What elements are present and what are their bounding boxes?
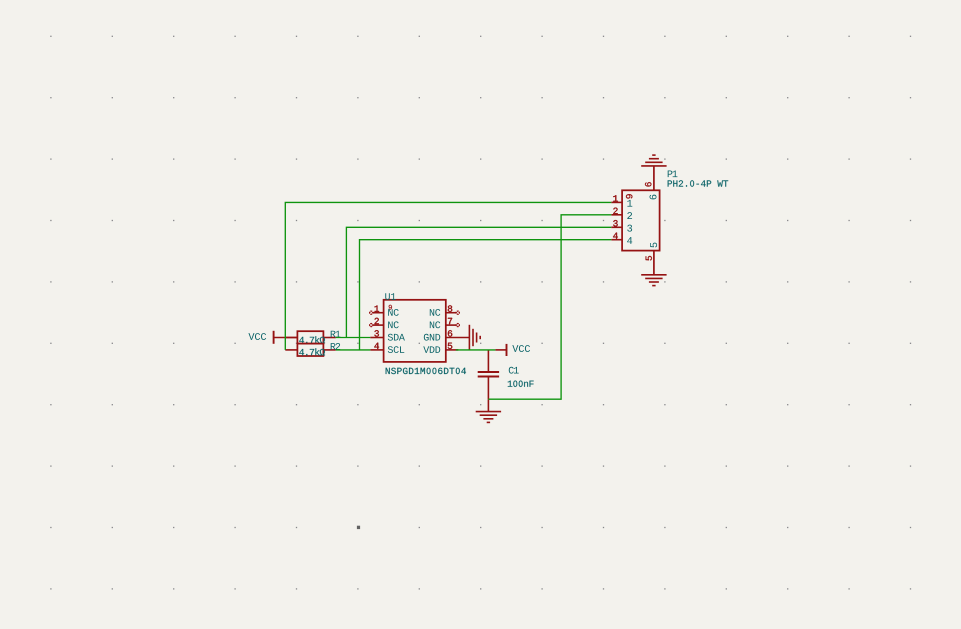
P1 stacked pin 9 number <box>626 194 632 198</box>
R1 value 4.7kOhm <box>299 336 325 343</box>
P1 pin 6 (top shield) <box>645 166 656 200</box>
ground below C1 <box>476 399 501 422</box>
P1 pin 3 <box>611 220 632 231</box>
wire SCL: R2 to U1 pin4 <box>336 349 371 351</box>
R2 value 4.7kOhm <box>299 348 325 355</box>
U1 pin 6 (GND) <box>424 330 470 340</box>
IC U1 body <box>384 300 446 362</box>
U1 pin 4 (SCL) <box>370 343 404 353</box>
P1 pin 1 <box>611 195 632 206</box>
C1 value 100nF <box>508 381 534 387</box>
resistor R1 <box>285 331 336 343</box>
wire P1 pin1 to R2/VCC rail <box>285 202 611 350</box>
U1 pin 8 (NC) <box>430 305 460 315</box>
U1 reference label <box>385 293 396 300</box>
connector P1 body <box>622 190 660 250</box>
ground at U1 pin6 <box>469 325 480 350</box>
R1 reference label <box>331 331 341 338</box>
R2 reference label <box>331 343 341 350</box>
ground above P1 (inverted) <box>641 155 666 166</box>
power symbol VCC (right) <box>495 344 506 356</box>
ground below P1 <box>641 275 666 286</box>
VCC label (left) <box>248 333 266 340</box>
P1 value PH2.0-4P WT <box>668 180 729 186</box>
wire SDA: R1 to U1 pin3 <box>336 337 371 339</box>
resistor R2 <box>285 344 336 356</box>
C1 reference label <box>509 367 519 374</box>
U1 pin 7 (NC) <box>430 318 460 328</box>
U1 pin 3 (SDA) <box>370 330 405 340</box>
wire P1 pin4 to SCL net <box>360 240 612 350</box>
capacitor C1 <box>478 350 499 399</box>
P1 pin 4 <box>611 233 632 244</box>
U1 pin 2 (NC) <box>369 318 399 328</box>
U1 pin 1 (NC) <box>369 306 399 316</box>
grid origin marker <box>357 526 360 529</box>
P1 reference label <box>668 171 678 178</box>
VCC label (right) <box>512 345 530 352</box>
wire VDD: U1 pin5 to VCC <box>456 349 496 351</box>
power symbol VCC (left) <box>274 331 298 344</box>
U1 value NSPGD1M006DT04 <box>386 368 466 374</box>
P1 pin 5 (bottom shield) <box>646 243 657 275</box>
wire P1 pin3 to SDA net <box>346 227 611 337</box>
U1 pin 5 (VDD) <box>423 343 458 353</box>
P1 pin 2 <box>611 208 632 219</box>
U1 hidden pad pin 9 number <box>389 305 392 310</box>
wire P1 pin2 to C1 bottom / ground net <box>488 215 611 399</box>
